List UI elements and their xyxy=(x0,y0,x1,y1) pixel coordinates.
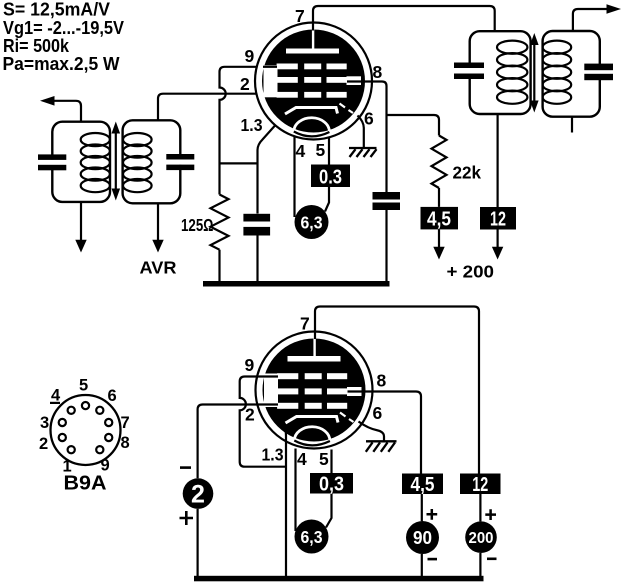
coil L2 (left IF transformer secondary) box xyxy=(123,120,181,203)
capacitor C4 screen decoupling xyxy=(373,192,401,200)
svg-text:0.3: 0.3 xyxy=(319,165,342,188)
meter circle 2 xyxy=(183,478,214,509)
resistor R2 22k xyxy=(432,136,447,189)
wire pin 9 with hop over grid wire, down to R1 xyxy=(220,67,278,195)
tube V1 inner disc xyxy=(262,30,365,133)
heater voltage circle 6,3 (bottom) xyxy=(295,520,329,554)
current box 0,3 (bottom heater) xyxy=(310,473,353,494)
capacitor C6 across L4 xyxy=(584,64,613,81)
wire box 4,5 to supply arrow xyxy=(438,229,440,247)
svg-text:4,5: 4,5 xyxy=(411,473,435,496)
svg-text:22k: 22k xyxy=(453,163,482,183)
V2 pin 6 wire to ground xyxy=(359,422,385,442)
input arrow wire (left, to grid transformer) xyxy=(54,101,81,122)
V2 grid g3 row xyxy=(277,373,347,379)
ground rail (top circuit) xyxy=(203,281,390,287)
svg-text:4: 4 xyxy=(297,449,307,469)
svg-text:90: 90 xyxy=(413,527,432,548)
capacitor C3 cathode bypass xyxy=(243,214,270,222)
V1 pin 7 wire and top rail to T2 xyxy=(313,6,495,31)
svg-text:1.3: 1.3 xyxy=(262,445,284,465)
svg-text:9: 9 xyxy=(245,46,255,66)
svg-text:8: 8 xyxy=(121,434,130,452)
svg-text:6: 6 xyxy=(108,387,117,405)
capacitor C1 across L1 xyxy=(38,154,66,170)
V2 pin 4 heater wire xyxy=(294,449,296,532)
tube V1 envelope xyxy=(255,23,372,140)
V2 pin 2 wire to meter 2 xyxy=(198,405,278,479)
tube V2 inner disc xyxy=(263,339,366,442)
wire meter 90 to rail xyxy=(421,554,423,577)
current box 0.3 heater xyxy=(311,165,350,188)
V2 anode plate xyxy=(288,356,341,362)
plus sign meter 90 xyxy=(427,509,438,520)
svg-text:7: 7 xyxy=(295,6,305,26)
ground rail (bottom circuit) xyxy=(194,576,484,582)
svg-text:5: 5 xyxy=(316,140,326,160)
V1 anode lead (white) xyxy=(312,30,314,50)
minus sign meter 2 xyxy=(180,466,191,469)
V2 heater dome xyxy=(294,427,330,441)
V1 left pin pocket xyxy=(264,65,278,97)
V1 pin 6 wire to ground xyxy=(358,116,364,148)
coil L1 (left IF transformer primary) box xyxy=(52,122,110,202)
V1 cathode tick marks to pin 6 xyxy=(340,104,354,114)
current box 12 (bottom) xyxy=(460,474,501,495)
svg-text:12: 12 xyxy=(490,208,506,231)
resistor R1 125ohm xyxy=(211,195,229,250)
coil L3 (right IF transformer primary) box xyxy=(470,31,531,114)
svg-text:8: 8 xyxy=(377,371,387,391)
svg-text:8: 8 xyxy=(373,62,383,82)
V2 pin 5 heater wire xyxy=(330,450,332,474)
V2 pin 9 wire with hop, down and right to cathode node xyxy=(240,377,286,467)
svg-text:B9A: B9A xyxy=(64,473,107,495)
wire L1 bottom to down arrow xyxy=(80,202,82,240)
wire screen node to R2 xyxy=(387,115,440,136)
wire C3 to rail xyxy=(256,236,258,283)
wire box 4,5 to meter 90 xyxy=(421,494,423,521)
svg-text:1.3: 1.3 xyxy=(241,115,263,135)
wire R1 bottom to rail xyxy=(218,250,220,282)
coil L1 windings xyxy=(81,133,110,192)
V2 cathode tick marks to pin 6 xyxy=(340,413,354,423)
V1 pin 5 heater wire xyxy=(328,138,330,165)
wire L2 top to grid pin 2 xyxy=(158,94,278,121)
wire meter 200 to rail xyxy=(479,553,481,577)
B9A socket pin holes xyxy=(59,402,113,453)
V2 pin 1.3 wire down to rail xyxy=(284,425,286,578)
svg-text:6: 6 xyxy=(364,109,374,129)
V1 heater dome xyxy=(294,118,330,132)
svg-text:6,3: 6,3 xyxy=(301,527,323,547)
svg-text:2: 2 xyxy=(240,74,250,94)
minus sign meter 90 xyxy=(428,558,438,561)
svg-text:6,3: 6,3 xyxy=(301,212,323,232)
current box 4,5 xyxy=(421,207,459,230)
V2 left pin pocket xyxy=(264,374,278,408)
B9A pin 4 underline xyxy=(50,402,60,404)
V1 pin 8 wire to screen node xyxy=(347,82,387,193)
heater voltage circle 6,3 xyxy=(295,205,329,239)
wire T2 primary bottom to current box 12 xyxy=(497,114,499,207)
current box 4,5 (bottom) xyxy=(402,474,443,495)
svg-text:3: 3 xyxy=(40,414,49,432)
V1 pin 4 heater wire xyxy=(293,136,295,217)
svg-text:0,3: 0,3 xyxy=(319,473,344,496)
tube parameter text block xyxy=(3,0,125,74)
L4 bottom stub xyxy=(571,117,573,133)
plus sign meter 2 xyxy=(180,511,194,525)
B9A socket outline xyxy=(51,395,121,465)
wire pin 1.3 diagonal down to bypass C3 xyxy=(258,116,284,214)
svg-text:2: 2 xyxy=(245,405,255,425)
V2 grid g1 row xyxy=(277,403,347,409)
tube V2 envelope xyxy=(256,332,373,449)
V1 cathode xyxy=(285,108,338,115)
wire box 12 to supply arrow xyxy=(497,230,499,248)
wire screen node to C4 to rail xyxy=(385,210,387,282)
B9A pin labels xyxy=(39,377,130,476)
svg-text:2: 2 xyxy=(39,435,48,453)
V2 right pin pocket xyxy=(347,387,362,396)
coupling adjust double arrow T1 xyxy=(112,122,121,201)
V2 cathode xyxy=(286,417,339,424)
svg-text:4: 4 xyxy=(296,141,306,161)
V2 pin 7 wire up and right to box 12 xyxy=(315,307,479,474)
coil L3 windings xyxy=(497,41,527,104)
V2 pin 8 wire to box 4,5 xyxy=(348,392,422,474)
capacitor C2 across L2 xyxy=(166,154,194,170)
V1 grid g3 row xyxy=(277,64,347,70)
V1 anode plate xyxy=(286,49,339,54)
ground symbol (top) xyxy=(349,148,377,157)
svg-text:7: 7 xyxy=(300,314,310,334)
svg-text:9: 9 xyxy=(245,355,255,375)
plus sign meter 200 xyxy=(485,509,496,520)
V1 grid g1 row xyxy=(277,92,347,98)
wire box 12 to meter 200 xyxy=(479,494,481,521)
svg-text:+ 200: + 200 xyxy=(447,262,495,282)
svg-text:5: 5 xyxy=(319,449,329,469)
svg-text:AVR: AVR xyxy=(140,258,177,278)
V1 grid g2 row xyxy=(277,77,347,83)
svg-text:200: 200 xyxy=(469,530,494,547)
coupling adjust double arrow T2 xyxy=(530,33,539,113)
ground symbol (bottom) xyxy=(366,441,397,452)
coil L4 windings xyxy=(543,41,572,104)
V1 right pin pocket xyxy=(347,76,362,85)
svg-text:5: 5 xyxy=(79,377,88,395)
svg-text:6: 6 xyxy=(373,403,383,423)
svg-text:7: 7 xyxy=(121,414,130,432)
svg-text:12: 12 xyxy=(472,473,488,496)
V1 pin 9 wire into pocket xyxy=(263,66,277,68)
current box 12 xyxy=(480,207,516,230)
wire meter 2 to rail xyxy=(197,509,199,577)
wire junction cathode T xyxy=(220,162,258,164)
V2 grid g2 row xyxy=(277,388,347,394)
wire L2 bottom to AVR arrow xyxy=(157,203,159,240)
output arrow wire from L4 xyxy=(573,9,607,31)
svg-text:Pa=max.2,5 W: Pa=max.2,5 W xyxy=(3,53,121,74)
wire R2 to current box 4,5 xyxy=(438,188,440,207)
minus sign meter 200 xyxy=(487,558,497,561)
capacitor C5 across L3 xyxy=(454,63,484,80)
coil L2 windings xyxy=(123,133,152,192)
V2 anode lead (white) xyxy=(313,339,315,358)
svg-text:125Ω: 125Ω xyxy=(181,215,214,235)
coil L4 (right IF transformer secondary) box xyxy=(543,31,600,117)
meter circle 200 xyxy=(465,521,497,553)
meter circle 90 xyxy=(406,521,439,554)
svg-text:2: 2 xyxy=(191,481,205,509)
svg-text:4,5: 4,5 xyxy=(427,208,451,231)
